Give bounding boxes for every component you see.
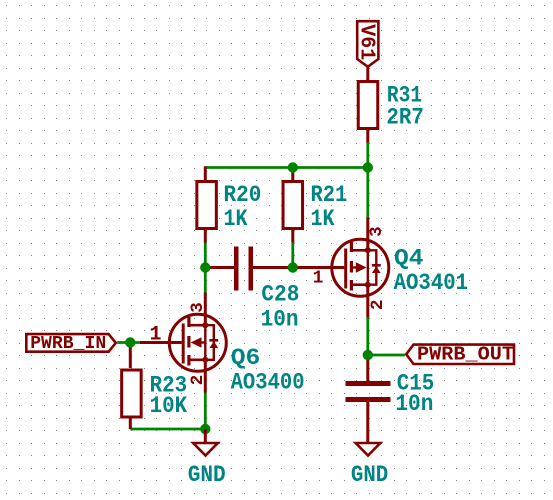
- wire PWRB_IN to node: [117, 341, 140, 344]
- svg-text:R21: R21: [311, 182, 348, 208]
- svg-text:Q6: Q6: [231, 345, 260, 371]
- wire R20 bottom: [204, 243, 207, 268]
- wire R21 bottom: [291, 243, 294, 268]
- junction node PWRB_OUT: [363, 350, 373, 360]
- svg-text:10n: 10n: [261, 306, 299, 332]
- junction node bus-R31: [363, 162, 373, 172]
- svg-text:PWRB_OUT: PWRB_OUT: [417, 344, 514, 366]
- global label PWRB_OUT: [406, 344, 514, 366]
- svg-text:PWRB_IN: PWRB_IN: [30, 333, 106, 354]
- svg-text:GND: GND: [351, 462, 388, 488]
- svg-text:C28: C28: [261, 282, 299, 308]
- svg-text:V61: V61: [355, 24, 378, 60]
- svg-text:1: 1: [313, 269, 324, 289]
- wire R23 bottom to gnd node: [130, 428, 205, 431]
- junction node C28 right: [288, 262, 298, 272]
- junction node bus-R21: [288, 162, 298, 172]
- junction node C28 left: [200, 262, 210, 272]
- svg-text:1K: 1K: [311, 206, 335, 232]
- svg-text:3: 3: [367, 226, 387, 237]
- svg-text:10K: 10K: [150, 393, 188, 419]
- capacitor C15: [346, 355, 391, 443]
- wire Q6 source bottom: [204, 393, 207, 430]
- transistor Q4: [293, 218, 389, 318]
- wire out node to PWRB_OUT: [368, 354, 405, 357]
- wire Q4 drain from bus: [366, 168, 369, 218]
- svg-text:2: 2: [368, 299, 388, 310]
- svg-text:1K: 1K: [224, 206, 248, 232]
- ground symbol left: [193, 429, 218, 456]
- ground symbol right: [356, 443, 381, 456]
- resistor R31: [358, 67, 378, 143]
- junction node gnd left: [200, 424, 210, 434]
- global label 16V: [355, 21, 379, 67]
- resistor R20: [197, 166, 217, 242]
- svg-text:1: 1: [150, 324, 162, 347]
- svg-text:GND: GND: [188, 462, 226, 488]
- junction node PWRB_IN: [125, 337, 135, 347]
- svg-text:2: 2: [188, 375, 208, 386]
- wire R31 bottom to bus: [366, 143, 369, 168]
- resistor R21: [283, 166, 303, 242]
- svg-text:Q4: Q4: [394, 246, 424, 272]
- resistor R23: [122, 343, 141, 430]
- global label PWRB_IN: [26, 333, 116, 354]
- wire Q6 drain top: [204, 268, 207, 293]
- wire top bus horizontal: [205, 166, 367, 169]
- svg-text:3: 3: [188, 302, 208, 313]
- svg-text:R20: R20: [224, 182, 262, 208]
- svg-text:2R7: 2R7: [386, 105, 424, 131]
- capacitor C28: [204, 247, 294, 291]
- wire Q4 source to out node: [366, 318, 369, 356]
- transistor Q6: [140, 293, 226, 393]
- svg-text:10n: 10n: [395, 391, 433, 417]
- svg-text:AO3401: AO3401: [394, 270, 469, 296]
- svg-text:AO3400: AO3400: [231, 370, 305, 396]
